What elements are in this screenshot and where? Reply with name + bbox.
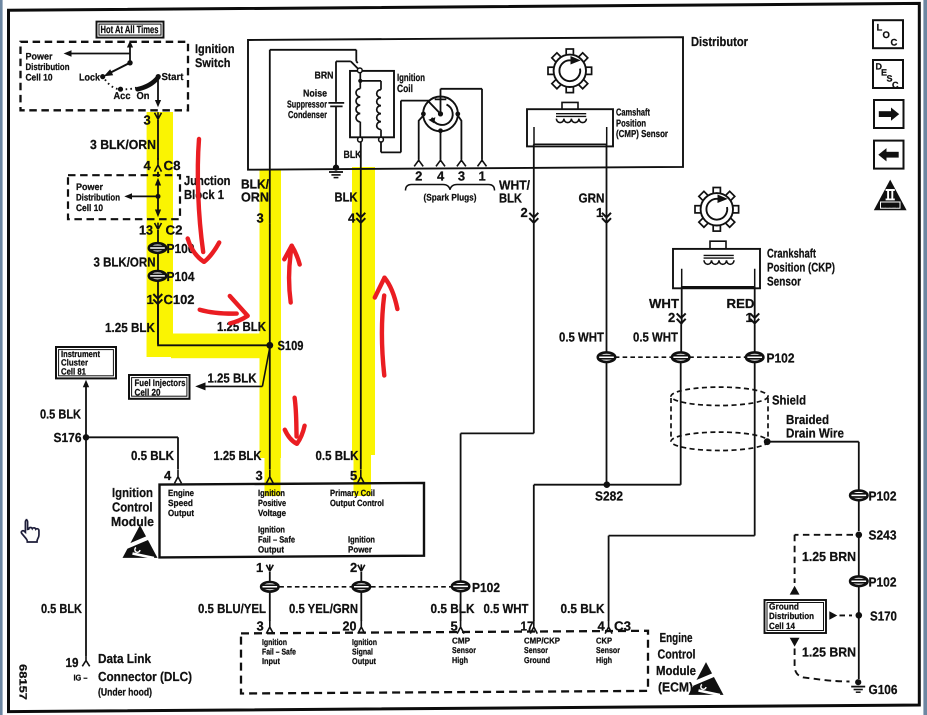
red arrow 3 right — [200, 310, 237, 314]
svg-text:5: 5 — [350, 468, 357, 483]
node S243 — [856, 532, 863, 539]
capacitor C: noise suppressor condenser — [328, 61, 344, 165]
wire: BRN jumper to coil terminal — [336, 61, 358, 68]
wire: Start output down — [157, 79, 159, 101]
box: ECM (dashed) — [241, 631, 648, 694]
wire: dashed S243 to cell 14 — [795, 535, 853, 583]
svg-text:(Under hood): (Under hood) — [98, 686, 152, 698]
brace: spark plugs group — [406, 185, 495, 191]
connector: P102 on GRN wire — [598, 352, 615, 362]
svg-text:S282: S282 — [595, 488, 623, 503]
svg-text:S176: S176 — [54, 430, 82, 445]
svg-text:4: 4 — [164, 468, 172, 483]
svg-text:Sensor: Sensor — [596, 645, 621, 655]
svg-text:1: 1 — [147, 292, 154, 307]
wire: into Junction Block 1 — [157, 172, 159, 177]
svg-text:5: 5 — [451, 619, 458, 634]
tab: CMP sensor mount — [562, 102, 578, 109]
svg-text:Control: Control — [658, 647, 696, 662]
pin: ICM 4 fork — [175, 470, 182, 483]
svg-text:Ignition: Ignition — [258, 488, 285, 498]
svg-text:C2: C2 — [166, 223, 183, 238]
svg-text:High: High — [452, 655, 468, 665]
svg-text:P102: P102 — [472, 580, 500, 595]
svg-text:BLK: BLK — [335, 189, 359, 204]
svg-text:Power: Power — [26, 52, 53, 63]
wire: dashed cell 14 to S170 — [829, 611, 837, 619]
svg-text:0.5 WHT: 0.5 WHT — [484, 601, 529, 616]
svg-text:Start: Start — [162, 72, 185, 83]
wire: 0.5 WHT S282 to ECM pin 17 — [533, 485, 535, 621]
core: CMP pickup core lines — [556, 114, 586, 117]
box: ICM — [160, 483, 425, 558]
gear: crankshaft reluctor — [695, 188, 739, 232]
red arrow 1 down — [198, 139, 203, 252]
rotor: distributor cap circle — [423, 97, 458, 132]
svg-text:Output: Output — [168, 508, 194, 518]
svg-text:Cell 20: Cell 20 — [135, 387, 161, 398]
wire: to ECM pin 3 — [269, 592, 271, 621]
svg-text:20: 20 — [343, 619, 357, 634]
node: Lock contact — [100, 74, 105, 79]
svg-text:0.5 BLU/YEL: 0.5 BLU/YEL — [198, 601, 266, 616]
svg-text:G106: G106 — [869, 682, 898, 697]
svg-text:Distribution: Distribution — [26, 62, 70, 73]
svg-text:Condenser: Condenser — [288, 110, 327, 121]
svg-text:CKP: CKP — [596, 636, 612, 646]
op coil box: Ignition Coil U — [350, 71, 394, 137]
svg-text:CMP: CMP — [452, 636, 470, 646]
svg-text:C: C — [891, 38, 898, 49]
svg-text:Engine: Engine — [660, 630, 693, 645]
connector: P102 lower right — [850, 576, 867, 586]
wire: arrow down to C2 — [157, 196, 159, 210]
connector P104 — [149, 271, 166, 281]
node: Acc contact — [118, 87, 123, 92]
wire: P102 to S170 to G106 — [858, 586, 860, 679]
svg-text:BLK: BLK — [499, 191, 523, 206]
wire: C2 to P100 — [157, 230, 159, 243]
pin: ECM 17 fork — [530, 620, 537, 633]
connector: GRN pin 1 chevrons — [602, 213, 611, 223]
node: braided drain wire tap — [764, 438, 771, 445]
svg-text:Block 1: Block 1 — [184, 187, 224, 202]
node S109 — [266, 342, 273, 349]
box: CMP inner body — [534, 127, 607, 144]
pin: ECM 3 fork — [266, 620, 273, 633]
box: Ground Distribution Cell 14 — [765, 600, 827, 633]
pin: ICM 2 fork — [358, 564, 365, 571]
svg-text:1.25 BLK: 1.25 BLK — [105, 320, 156, 335]
node: switch common — [127, 60, 132, 65]
svg-text:Cell 81: Cell 81 — [61, 366, 86, 376]
highlight: ignition feed vertical band — [147, 112, 173, 357]
svg-text:C: C — [892, 80, 899, 90]
svg-text:P102: P102 — [767, 350, 795, 365]
svg-text:0.5 BLK: 0.5 BLK — [40, 407, 82, 422]
svg-text:Junction: Junction — [184, 173, 231, 188]
svg-text:Connector (DLC): Connector (DLC) — [98, 669, 192, 684]
svg-text:68157: 68157 — [17, 664, 29, 700]
svg-text:Hot At All Times: Hot At All Times — [101, 24, 159, 36]
svg-text:4: 4 — [598, 619, 606, 634]
svg-text:BLK: BLK — [344, 149, 362, 161]
terminals: spark plug chevrons 2 4 3 1 — [414, 160, 486, 166]
wire: S176 to ICM pin 4 — [86, 437, 178, 469]
svg-text:Power: Power — [76, 182, 103, 193]
wire: CKP RED lead — [754, 287, 756, 324]
connector: BLK pin 4 chevrons — [356, 213, 365, 223]
wire: S282 bus — [534, 484, 681, 486]
svg-text:Fail – Safe: Fail – Safe — [262, 647, 296, 657]
svg-text:BRN: BRN — [315, 71, 334, 82]
terminal: rotor right — [455, 112, 460, 117]
pin: ECM 4 fork — [605, 620, 612, 633]
wire: 1.25 BRN S243 to P102 — [858, 535, 860, 576]
rotor: coil tower entry — [435, 89, 447, 112]
svg-text:3: 3 — [257, 211, 264, 226]
icon: OBD II triangle — [874, 180, 907, 211]
connector C8 top half: fork pin 3 — [155, 112, 162, 119]
svg-text:(ECM): (ECM) — [658, 680, 693, 695]
svg-text:Ignition: Ignition — [195, 42, 235, 56]
terminal: rotor bottom — [438, 128, 443, 133]
wire: 3 BLK/ORN segment — [157, 120, 159, 160]
svg-text:On: On — [137, 91, 150, 102]
svg-text:2: 2 — [521, 205, 528, 220]
svg-text:RED: RED — [727, 296, 755, 311]
svg-text:3: 3 — [257, 619, 264, 634]
svg-text:Coil: Coil — [397, 83, 413, 95]
svg-text:Camshaft: Camshaft — [616, 108, 650, 119]
svg-text:3: 3 — [458, 169, 465, 184]
connector: WHT pin 2 chevrons — [677, 313, 686, 323]
svg-text:Fail – Safe: Fail – Safe — [258, 534, 295, 544]
tab: CKP sensor mount — [710, 241, 726, 249]
svg-text:High: High — [596, 655, 612, 665]
wire: 0.5 BLK S176 down to DLC — [85, 437, 87, 656]
svg-text:Positive: Positive — [258, 498, 286, 508]
svg-text:Shield: Shield — [772, 393, 806, 408]
box: Fuel Injectors Cell 20 — [129, 375, 190, 399]
wire: CMP high (GRN) inside distributor — [606, 144, 608, 223]
svg-text:Switch: Switch — [195, 56, 231, 70]
wire: P100 to P104, 3 BLK/ORN — [157, 253, 159, 271]
wire: P104 to C102 — [157, 281, 159, 344]
rotor: rotation arc with arrowhead — [432, 105, 453, 125]
svg-text:1.25 BLK: 1.25 BLK — [208, 371, 258, 386]
svg-text:S170: S170 — [870, 608, 897, 623]
svg-text:19: 19 — [66, 655, 79, 670]
icon: back button — [874, 141, 904, 169]
inductor: CKP pickup coil — [704, 260, 734, 264]
svg-text:Distributor: Distributor — [691, 34, 748, 49]
wire: braided drain wire — [767, 442, 859, 491]
wire: dashed cell 14 to G106 — [790, 638, 800, 647]
svg-text:Ignition: Ignition — [258, 524, 285, 534]
ground: condenser ground — [329, 165, 343, 178]
icon: forward button — [874, 100, 904, 128]
connector: P102 on YEL/GRN — [353, 582, 370, 592]
box: CKP sensor body — [673, 249, 760, 288]
box: CMP sensor body — [527, 109, 613, 146]
svg-text:Acc: Acc — [114, 91, 131, 102]
svg-text:0.5 BLK: 0.5 BLK — [131, 448, 175, 463]
svg-text:Drain Wire: Drain Wire — [786, 426, 844, 441]
svg-text:Primary Coil: Primary Coil — [330, 488, 375, 498]
box: Ignition Switch (dashed) — [21, 42, 189, 111]
icon: DESC button — [873, 60, 903, 88]
svg-text:P102: P102 — [869, 575, 897, 590]
wire: plug 3 lead — [458, 116, 462, 160]
svg-text:4: 4 — [348, 211, 356, 226]
svg-text:Speed: Speed — [168, 498, 193, 508]
node: primary-secondary tap — [358, 79, 362, 83]
svg-text:Position: Position — [616, 118, 646, 129]
wire: to ECM pin 5 — [460, 592, 462, 622]
svg-text:1: 1 — [596, 205, 603, 220]
svg-text:O: O — [883, 30, 890, 41]
wire: RED to P102 — [754, 324, 756, 352]
icon: LOC button — [873, 20, 903, 48]
wire: BLK/ORN feed inside distributor — [270, 50, 357, 62]
winding: primary — [356, 73, 360, 138]
svg-text:Data Link: Data Link — [98, 651, 152, 666]
wire: arrow to Power Distribution Cell 10 — [71, 53, 131, 55]
svg-text:OBD II: OBD II — [882, 203, 900, 209]
svg-text:Sensor: Sensor — [452, 645, 477, 655]
red arrow 4 up — [382, 296, 384, 376]
svg-text:Noise: Noise — [303, 88, 327, 99]
svg-text:P104: P104 — [167, 269, 196, 284]
svg-text:CMP/CKP: CMP/CKP — [524, 636, 560, 646]
red arrow 2 up — [289, 248, 291, 303]
svg-text:Ignition: Ignition — [262, 637, 287, 647]
svg-text:WHT: WHT — [649, 296, 679, 311]
shield: dashed cylinder — [671, 387, 768, 450]
pin: ICM 5 fork — [357, 470, 364, 483]
svg-text:Distribution: Distribution — [76, 193, 120, 204]
wire: 0.5 WHT to P102 — [680, 324, 682, 352]
svg-text:Ignition: Ignition — [352, 637, 377, 647]
svg-text:S109: S109 — [278, 338, 304, 353]
svg-text:13: 13 — [139, 223, 153, 238]
connector: WHT/BLK pin 2 chevrons — [529, 213, 538, 223]
connector: P102 on drain wire — [850, 491, 867, 501]
svg-text:Distribution: Distribution — [769, 611, 814, 621]
pin: ECM 20 fork — [358, 620, 365, 633]
wire: 0.5 BLK through shield down and to ECM pin 4 — [609, 362, 755, 621]
svg-text:(Spark Plugs): (Spark Plugs) — [424, 193, 477, 204]
svg-text:C3: C3 — [614, 619, 631, 634]
svg-text:GRN: GRN — [579, 191, 605, 206]
svg-text:0.5 WHT: 0.5 WHT — [633, 329, 678, 344]
svg-text:Sensor: Sensor — [524, 645, 549, 655]
inductor: CMP pickup coil — [556, 119, 586, 123]
wire: plug 1 lead — [441, 89, 483, 160]
svg-text:4: 4 — [144, 158, 152, 173]
rotor: center electrode and arm — [438, 111, 443, 116]
svg-text:C8: C8 — [164, 158, 181, 173]
highlight: BLK/ORN band — [260, 170, 282, 458]
esd: ICM warning — [124, 527, 156, 558]
wire: P102 dashed tie bar lower — [279, 586, 451, 588]
svg-text:4: 4 — [437, 169, 445, 184]
box: Distributor — [248, 37, 683, 170]
svg-text:Module: Module — [656, 663, 696, 678]
box: Hot At All Times — [97, 22, 164, 38]
svg-text:Sensor: Sensor — [767, 275, 801, 289]
wire: GRN down to P102 — [606, 224, 608, 353]
svg-text:0.5 BLK: 0.5 BLK — [561, 601, 606, 616]
terminal: coil B+ (top circle) — [357, 68, 362, 73]
cursor: hand pointer — [21, 520, 39, 542]
svg-text:2: 2 — [415, 169, 422, 184]
svg-text:IG –: IG – — [74, 673, 88, 683]
red arrow 5 down — [295, 398, 297, 437]
svg-text:Suppressor: Suppressor — [287, 99, 327, 110]
svg-text:S243: S243 — [869, 528, 897, 543]
svg-text:Input: Input — [262, 656, 280, 666]
wire: arrow left to Power Distribution Cell 10 — [131, 195, 158, 197]
wire: 0.5 WHT to S282 — [606, 362, 608, 482]
svg-text:3 BLK/ORN: 3 BLK/ORN — [94, 254, 156, 269]
svg-text:Signal: Signal — [352, 647, 373, 657]
esd: ECM warning — [690, 664, 722, 695]
wire: arrow up inside junction block — [157, 185, 159, 197]
svg-text:Position (CKP): Position (CKP) — [767, 261, 835, 275]
svg-text:Engine: Engine — [168, 488, 194, 498]
svg-text:C102: C102 — [164, 292, 195, 307]
pin: ICM 1 fork — [266, 564, 273, 571]
svg-text:Crankshaft: Crankshaft — [767, 247, 817, 261]
node: Start contact — [156, 74, 161, 79]
wire: BLK down to ICM pin 5 — [360, 142, 362, 224]
svg-text:Module: Module — [111, 514, 154, 529]
connector: P102 on WHT wire — [672, 352, 689, 362]
svg-text:1: 1 — [746, 310, 753, 325]
svg-text:2: 2 — [350, 560, 357, 575]
wire: secondary high tension to rotor — [381, 101, 430, 153]
node: junction block tap — [156, 194, 161, 199]
box: CKP inner body — [682, 269, 755, 287]
svg-text:0.5 YEL/GRN: 0.5 YEL/GRN — [289, 601, 358, 616]
connector P100 — [149, 243, 166, 253]
svg-text:Output Control: Output Control — [330, 498, 384, 508]
connector C2: fork pin 13 — [155, 223, 162, 230]
wire: plug 2 lead — [419, 116, 424, 160]
highlight: horizontal band to S109 — [147, 334, 281, 358]
svg-text:Voltage: Voltage — [258, 508, 286, 518]
wire: 0.5 BLU/YEL ICM 1 down — [269, 572, 271, 582]
pin: ICM 3 fork — [266, 470, 273, 483]
svg-text:1.25 BLK: 1.25 BLK — [214, 448, 263, 463]
svg-text:(CMP) Sensor: (CMP) Sensor — [616, 129, 668, 140]
wire: 0.5 WHT through shield to S282 — [680, 362, 682, 484]
svg-text:3: 3 — [256, 468, 263, 483]
node S170 — [856, 612, 863, 619]
svg-text:Output: Output — [352, 656, 376, 666]
svg-text:0.5 BLK: 0.5 BLK — [316, 448, 360, 463]
svg-text:Ground: Ground — [769, 601, 799, 611]
wire: BLK continues — [360, 224, 362, 470]
wire: to ECM pin 20 — [360, 592, 362, 621]
pin: DLC 19 fork — [82, 656, 89, 666]
winding: secondary — [360, 81, 381, 137]
svg-text:Cell 10: Cell 10 — [76, 203, 103, 214]
core: CKP pickup core lines — [704, 255, 734, 258]
node S176 — [83, 434, 89, 440]
terminal: coil secondary tower (bottom-right circle) — [379, 137, 384, 142]
connector: P102 on BLU/YEL — [261, 582, 278, 592]
svg-text:2: 2 — [668, 310, 675, 325]
wire: 1.25 BLK to fuel injectors — [205, 348, 270, 387]
svg-text:Power: Power — [348, 544, 372, 554]
switch rotor: thick arc On to Start — [138, 78, 159, 90]
terminal: rotor left — [421, 112, 426, 117]
connector: P102 on RED wire — [746, 352, 763, 362]
wire: 0.5 BLK up to instrument cluster — [83, 380, 89, 387]
wire: P102 dashed tie bar — [615, 356, 746, 358]
svg-text:P102: P102 — [869, 489, 897, 504]
svg-text:Control: Control — [112, 500, 153, 515]
svg-text:3: 3 — [144, 113, 151, 128]
svg-text:17: 17 — [521, 619, 534, 634]
wire: BLK/ORN continues to ICM pin 3 — [269, 224, 271, 470]
wire: BLK/ORN vertical through distributor — [269, 50, 271, 224]
svg-text:0.5 WHT: 0.5 WHT — [559, 329, 604, 344]
svg-text:1.25 BRN: 1.25 BRN — [802, 549, 856, 564]
wire: rotor arm to Lock — [109, 63, 131, 74]
svg-text:0.5 BLK: 0.5 BLK — [41, 601, 83, 616]
box: Junction Block 1 (dashed) — [68, 175, 180, 219]
wire: WHT/BLK down to turn — [461, 224, 534, 582]
connector C102: double chevron pin 1 — [153, 294, 162, 304]
wire: dotted detent arc Lock-Acc-On — [105, 80, 137, 90]
wire: 1.25 BLK down then right to S109 — [157, 305, 267, 346]
svg-text:Lock: Lock — [79, 73, 100, 84]
wire: 0.5 YEL/GRN ICM 2 down — [360, 572, 362, 582]
terminal: coil primary low (bottom-left circle) — [358, 137, 363, 142]
connector: P102 on CMP high wire — [452, 582, 469, 592]
svg-text:Output: Output — [258, 544, 284, 554]
gear: camshaft reluctor — [548, 49, 592, 93]
wire: CKP WHT lead — [681, 287, 683, 324]
wire: switch common up to Hot At All Times — [129, 47, 131, 63]
highlight: BLK band — [352, 167, 375, 455]
svg-text:Cell 14: Cell 14 — [769, 621, 795, 631]
svg-text:0.5 BLK: 0.5 BLK — [431, 601, 476, 616]
wire: CMP low (WHT/BLK) inside distributor — [533, 144, 535, 223]
svg-text:Ignition: Ignition — [112, 485, 153, 500]
svg-text:Ground: Ground — [524, 655, 550, 665]
svg-text:Cell 10: Cell 10 — [26, 73, 53, 84]
svg-text:3 BLK/ORN: 3 BLK/ORN — [90, 137, 156, 152]
svg-text:1: 1 — [256, 560, 263, 575]
wire: drain to S243 — [858, 500, 860, 531]
box: Instrument Cluster Cell 81 — [56, 347, 116, 378]
svg-text:ORN: ORN — [241, 189, 269, 204]
svg-text:1.25 BRN: 1.25 BRN — [802, 645, 856, 660]
ground G106 — [851, 679, 865, 692]
connector C8 bottom half: pin 4 — [155, 158, 162, 171]
wire: plug 4 lead — [440, 133, 442, 160]
connector: RED pin 1 chevrons — [750, 313, 759, 323]
pin: ECM 5 fork — [457, 620, 464, 633]
node S282 — [604, 481, 611, 488]
svg-text:1: 1 — [479, 169, 486, 184]
svg-text:Ignition: Ignition — [348, 534, 375, 544]
